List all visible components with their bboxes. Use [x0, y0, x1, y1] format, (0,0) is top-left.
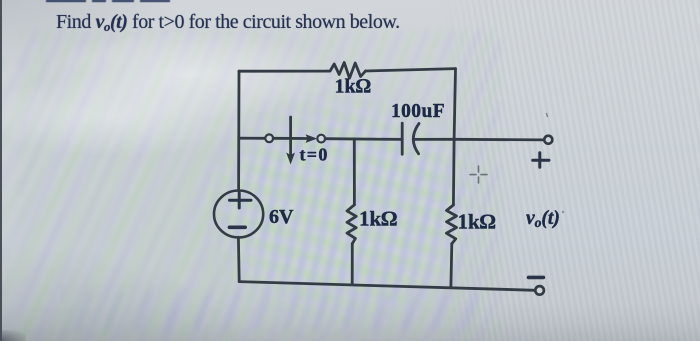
output polarity minus sign	[529, 276, 544, 280]
wire: middle horizontal from left vertical to switch pole	[239, 137, 265, 140]
terminal - (open circle, output)	[535, 286, 544, 295]
switch S1 pole terminal (open circle)	[265, 134, 273, 142]
faint tick mark above + terminal	[547, 114, 548, 117]
voltage source V1 plus sign	[230, 193, 252, 208]
svg-text:6V: 6V	[269, 206, 294, 228]
dust speck on screen	[562, 211, 564, 213]
wire: middle horizontal from right vertical to + output terminal	[454, 138, 544, 141]
switch S1 blade arrowhead	[306, 134, 318, 143]
svg-text:100uF: 100uF	[391, 101, 445, 122]
wire: right vertical from middle wire down to R3	[452, 139, 456, 205]
wire: switch blade with arrowhead toward throw	[273, 137, 311, 140]
wire: top horizontal right of R1	[366, 69, 456, 71]
cursor crosshair	[470, 166, 487, 183]
capacitor C1 100uF: curved plate	[413, 124, 419, 154]
resistor R1 1kOhm (top, zigzag)	[327, 63, 366, 79]
title text	[56, 11, 400, 34]
wire: top-left vertical (battery top to top-left corner)	[237, 71, 240, 191]
wire: middle horizontal from capacitor to right vertical	[414, 138, 455, 141]
capacitor C1 100uF: flat plate	[401, 123, 404, 154]
voltage source V1 minus sign	[229, 226, 245, 230]
voltage source V1 6V (circle)	[214, 191, 263, 238]
svg-text:1kΩ: 1kΩ	[335, 76, 371, 98]
terminal + (open circle, output)	[544, 136, 552, 144]
svg-text:1kΩ: 1kΩ	[458, 210, 496, 234]
svg-text:t=0: t=0	[300, 145, 329, 165]
switch S1 actuation arrow (vertical, t=0)	[289, 117, 292, 156]
wire: middle resistor branch from middle wire down to R2	[353, 139, 356, 205]
switch S1 throw terminal (open circle)	[317, 135, 325, 143]
output polarity plus sign	[533, 153, 549, 168]
resistor R2 1kOhm (middle, vertical zigzag)	[347, 205, 356, 244]
wire: bottom horizontal	[239, 282, 535, 291]
wire: middle resistor branch from R2 down to bottom wire	[351, 244, 354, 285]
wire: bottom-left vertical (battery bottom to bottom wire)	[237, 237, 241, 281]
wire: right vertical upper (top corner down to middle wire)	[454, 69, 455, 140]
svg-text:vo(t): vo(t)	[526, 208, 560, 230]
left screen edge	[0, 0, 2, 341]
wire: right vertical from R3 down to bottom wire	[449, 244, 453, 287]
wire: middle horizontal from switch throw to capacitor	[325, 137, 402, 140]
cut-off dark text row at very top	[46, 0, 86, 2]
resistor R3 1kOhm (right, vertical zigzag)	[446, 205, 456, 244]
wire: top horizontal left of R1	[239, 70, 327, 73]
svg-text:1kΩ: 1kΩ	[359, 207, 397, 231]
